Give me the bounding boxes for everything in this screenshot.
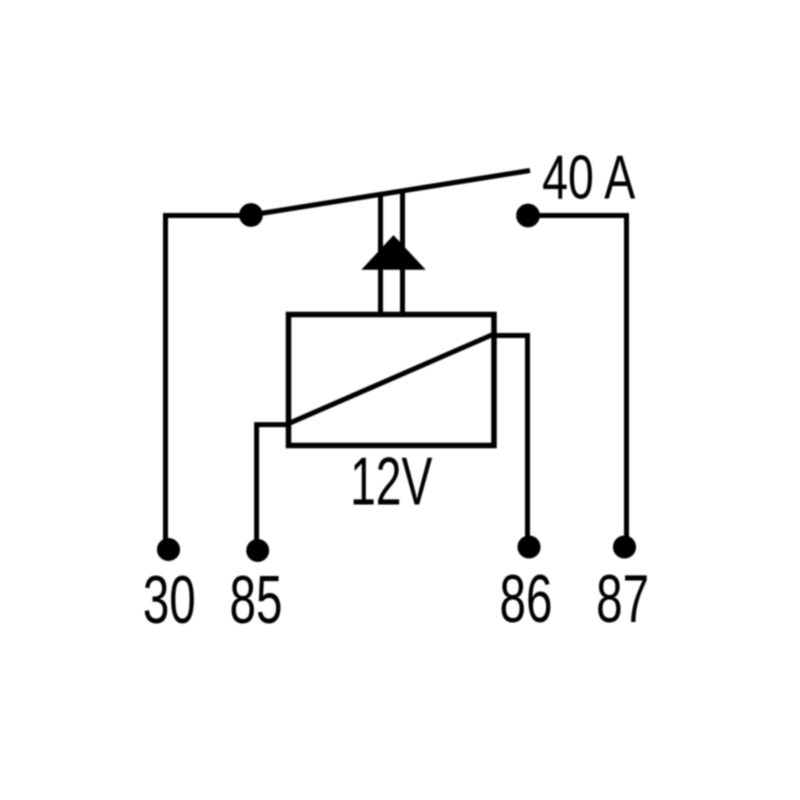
switch arm (relay contact) <box>251 171 530 216</box>
svg-text:40 A: 40 A <box>542 142 635 212</box>
actuator link line left <box>378 196 383 315</box>
terminal dot 85 <box>249 541 267 559</box>
node contact 87 <box>518 206 537 225</box>
node junction 30/arm <box>241 205 260 224</box>
wire coil to pin 86 <box>494 336 528 540</box>
wire pin 30 riser and top run <box>166 216 252 542</box>
terminal dot 86 <box>520 538 539 557</box>
actuator arrow <box>365 237 423 268</box>
actuator link line right <box>400 193 405 316</box>
wire contact to pin 87 <box>528 216 627 540</box>
coil diagonal <box>289 334 494 424</box>
svg-text:85: 85 <box>230 563 283 638</box>
wire coil to pin 85 <box>257 425 289 542</box>
coil box K1 <box>289 315 495 446</box>
svg-text:86: 86 <box>500 562 553 637</box>
terminal dot 30 <box>159 540 178 559</box>
terminal dot 87 <box>615 538 634 557</box>
svg-text:30: 30 <box>143 563 196 638</box>
svg-text:12V: 12V <box>350 444 432 520</box>
svg-text:87: 87 <box>596 562 649 637</box>
